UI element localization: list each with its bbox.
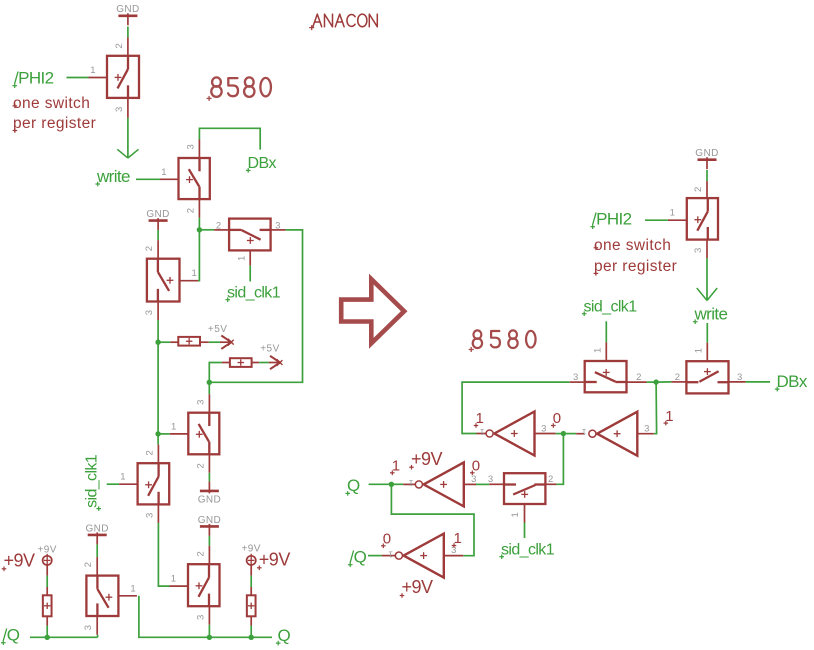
net label /PHI2 right: [590, 210, 631, 230]
wire /PHI2 to S1 pin 1: [67, 77, 89, 79]
resistor R2: [222, 358, 259, 367]
wire /Q rail left segment: [30, 635, 98, 638]
analog switch S12 (PHI2 right): [668, 181, 718, 258]
svg-text:0: 0: [472, 458, 480, 475]
svg-text:+9V: +9V: [4, 551, 36, 571]
svg-text:GND: GND: [198, 515, 221, 526]
pin number 3 of S2: [185, 144, 196, 149]
wire S9 pin 3 feedback loop to G1 output: [462, 382, 570, 433]
svg-text:3: 3: [83, 625, 94, 630]
net label DBx (left): [246, 155, 277, 173]
svg-text:1: 1: [581, 427, 586, 436]
ground GND4 above S8: [198, 515, 221, 536]
svg-text:2: 2: [185, 208, 196, 213]
supply label +9V gray left: [38, 545, 57, 556]
part label 8580 (left): [207, 77, 271, 101]
net label sid_clk1 (S3): [225, 285, 280, 303]
svg-text:1: 1: [388, 549, 393, 558]
tiny pin mark G1 input bubble: [479, 427, 484, 436]
svg-text:one switch: one switch: [13, 95, 90, 112]
svg-text:sid_clk1: sid_clk1: [84, 454, 101, 508]
state label 0 at G3 output: [470, 458, 480, 476]
svg-text:Q: Q: [347, 476, 360, 495]
wire +9V left to resistor R4: [46, 576, 48, 587]
svg-text:1: 1: [392, 458, 400, 475]
junction on /Q rail at R4: [45, 635, 50, 640]
svg-text:1: 1: [161, 167, 166, 178]
svg-text:1: 1: [665, 408, 673, 425]
ground GND6 top-right supply symbol: [695, 148, 718, 169]
wire GND5 to S7 pin 2: [96, 544, 98, 557]
wire G1 input to node F: [556, 433, 564, 435]
pin number 2 of S7: [83, 562, 94, 567]
svg-text:3: 3: [144, 310, 155, 315]
pin number 2 of S3: [216, 220, 221, 231]
svg-text:3: 3: [644, 423, 649, 434]
pin number 3 of S8: [195, 615, 206, 620]
svg-text:/Q: /Q: [350, 548, 367, 567]
pin number 2 of S5: [195, 463, 206, 468]
wire sid_clk1 to S6 pin 1: [107, 483, 119, 485]
svg-text:3: 3: [185, 144, 196, 149]
tiny pin mark G2 input bubble: [581, 427, 586, 436]
svg-text:DBx: DBx: [248, 155, 277, 172]
inverter G2: [576, 412, 654, 456]
svg-text:2: 2: [195, 463, 206, 468]
net label write (right): [693, 305, 728, 325]
wire GND2 to S4 pin 2: [157, 230, 159, 240]
svg-text:1: 1: [510, 512, 521, 517]
+9V supply symbol left: [43, 554, 52, 566]
pin number 2 of S10: [675, 372, 680, 383]
pin number 3 of S1: [114, 107, 125, 112]
svg-text:GND: GND: [146, 209, 169, 220]
pin number 1 of S12: [670, 208, 675, 219]
junction node F (latch node): [561, 431, 566, 436]
wire S3 pin 1 stub: [249, 265, 251, 281]
wire arrow from S12 pin 3 down to write node (right): [697, 258, 717, 300]
svg-text:GND: GND: [116, 4, 139, 15]
pin number 1 of S7: [130, 583, 135, 594]
analog switch S5: [170, 394, 220, 473]
junction node C: [207, 380, 212, 385]
svg-text:1: 1: [120, 472, 125, 483]
wire node A to S3 pin 2: [199, 229, 214, 231]
wire /Q to G4 input: [368, 555, 382, 557]
analog switch S4 (mirrored): [147, 240, 198, 320]
state label 1 at G1 output: [474, 410, 484, 428]
svg-text:0: 0: [383, 531, 391, 548]
pin number 1 of S10: [693, 348, 704, 353]
supply label +5V (2): [260, 344, 280, 355]
svg-text:2: 2: [83, 562, 94, 567]
svg-text:3: 3: [114, 107, 125, 112]
wire node D to S5 pin 1: [158, 433, 170, 435]
pin number 1 of S9: [592, 348, 603, 353]
wire R1 to +5V arrow: [209, 341, 220, 343]
wire S9 pin 2 to node E: [647, 381, 656, 383]
supply label +5V (1): [208, 324, 228, 335]
wire S8 pin 3 to rail: [208, 625, 210, 638]
svg-text:GND: GND: [695, 148, 718, 159]
junction node B (+5V tap): [155, 340, 160, 345]
inverter G3: [403, 462, 476, 506]
svg-text:sid_clk1: sid_clk1: [501, 542, 555, 559]
pin number 3 of S7: [83, 625, 94, 630]
svg-text:1: 1: [130, 583, 135, 594]
wire Q to node G: [369, 483, 392, 485]
net label sid_clk1 vertical (S6): [84, 454, 102, 511]
wire S7 pin 1 down to Q rail: [139, 596, 272, 638]
wire node B to resistor R1: [158, 341, 170, 343]
junction on Q rail at S8 pin 3: [207, 635, 212, 640]
state label 1 at G4 output: [452, 530, 462, 548]
svg-text:1: 1: [670, 208, 675, 219]
svg-text:1: 1: [192, 268, 197, 279]
svg-text:one switch: one switch: [594, 237, 671, 254]
tiny pin mark G4 input bubble: [388, 549, 393, 558]
wire S11 pin 1 stub: [524, 523, 526, 539]
pin number 2 of S8: [195, 551, 206, 556]
svg-text:2: 2: [693, 187, 704, 192]
pin number 2 of S12: [693, 187, 704, 192]
part label 8580 (right): [469, 330, 536, 352]
svg-text:per register: per register: [594, 258, 677, 275]
state label 0 at /Q node: [381, 531, 391, 549]
analog switch S2 (write switch): [160, 140, 210, 218]
sheet label ANACON: [309, 14, 377, 30]
svg-text:1: 1: [454, 530, 462, 547]
pin number 2 of S11: [548, 474, 553, 485]
value label +9V red at G3: [409, 449, 442, 470]
svg-text:3: 3: [693, 248, 704, 253]
pin number 1 of S3: [236, 256, 247, 261]
svg-text:3: 3: [737, 372, 742, 383]
pin number 3 of S3: [275, 220, 280, 231]
net label sid_clk1 bottom (S11): [499, 542, 554, 560]
svg-text:/PHI2: /PHI2: [14, 69, 54, 88]
net label /Q right: [348, 548, 367, 568]
resistor R1: [170, 337, 209, 346]
junction node D: [155, 431, 160, 436]
svg-text:+9V: +9V: [38, 545, 57, 556]
svg-text:per register: per register: [13, 115, 96, 132]
wire feedback Q node to G4 output: [391, 484, 474, 555]
analog switch S3 (sid_clk1 pass switch): [214, 219, 286, 266]
wire S2 pin 3 to DBx: [199, 128, 260, 149]
net label write (left): [95, 167, 130, 187]
resistor R3: [247, 565, 256, 626]
pin number 1 of S11: [510, 512, 521, 517]
wire G3 output to S11 pin 3: [476, 483, 489, 485]
ground GND1 top-left supply symbol: [116, 4, 139, 25]
pin number 2 of S1: [114, 43, 125, 48]
net label DBx right: [775, 372, 808, 392]
analog switch S8: [170, 546, 220, 625]
wire node E down to inverter G2 input: [654, 382, 657, 434]
svg-text:GND: GND: [198, 494, 221, 505]
wire S2 pin 2 to node A: [198, 218, 200, 230]
svg-text:/Q: /Q: [3, 626, 20, 645]
pin number 3 of G1: [541, 423, 546, 434]
wire node E to S10 pin 2: [656, 381, 671, 383]
net label /PHI2 left: [12, 69, 53, 89]
supply label +9V gray right: [242, 544, 261, 555]
wire GND4 to S8 pin 2: [208, 536, 210, 546]
wire +9V right to R3: [250, 576, 252, 587]
wire node G to G3 input: [391, 483, 403, 485]
svg-text:1: 1: [236, 256, 247, 261]
svg-text:GND: GND: [85, 523, 108, 534]
svg-text:3: 3: [275, 220, 280, 231]
wire S4 pin 3 down bus to S6 pin 2: [157, 320, 159, 445]
wire GND6 to S12 pin 2: [706, 170, 708, 181]
pin number 3 of G3 output: [471, 474, 476, 485]
svg-text:2: 2: [195, 551, 206, 556]
pin number 1 of S5: [171, 421, 176, 432]
pin number 3 of S12: [693, 248, 704, 253]
svg-text:+9V: +9V: [402, 577, 434, 597]
pin number 2 of S4: [144, 246, 155, 251]
svg-text:2: 2: [144, 450, 155, 455]
ground GND5 above S7: [85, 523, 108, 544]
wire R2 to +5V arrow: [259, 362, 269, 364]
pin number 1 of S2: [161, 167, 166, 178]
svg-text:3: 3: [195, 400, 206, 405]
svg-text:2: 2: [216, 220, 221, 231]
wire /PHI2 right to S12 pin 1: [645, 219, 668, 221]
pin number 2 of S6: [144, 450, 155, 455]
wire node A down to S4 pin 1: [198, 230, 199, 281]
wire GND1 to S1 pin 2: [127, 27, 129, 38]
svg-text:3: 3: [195, 615, 206, 620]
wire S3 pin 3 right and down to +5V node: [209, 230, 302, 382]
block arrow (transition symbol): [341, 279, 404, 343]
pin number 3 of S4: [144, 310, 155, 315]
svg-text:1: 1: [479, 427, 484, 436]
pin number 3 of S9: [573, 372, 578, 383]
state label 0 at node F: [551, 410, 561, 428]
svg-text:1: 1: [693, 348, 704, 353]
pin number 3 of S11 left: [488, 474, 493, 485]
svg-text:sid_clk1: sid_clk1: [227, 285, 281, 302]
svg-text:DBx: DBx: [777, 372, 808, 391]
pin number 3 of G4 output: [451, 545, 456, 556]
svg-text:0: 0: [553, 410, 561, 427]
svg-text:Q: Q: [278, 626, 291, 645]
svg-text:+5V: +5V: [260, 344, 280, 355]
pin number 1 of S8: [171, 574, 176, 585]
note text one switch per register (left): [13, 95, 97, 133]
svg-text:+9V: +9V: [411, 449, 443, 469]
svg-text:1: 1: [592, 348, 603, 353]
svg-text:1: 1: [408, 478, 413, 487]
analog switch S1 (PHI2 register switch): [89, 37, 140, 118]
inverter G4: [382, 534, 464, 578]
svg-text:2: 2: [548, 474, 553, 485]
pin number 3 of S6: [144, 513, 155, 518]
wire sid_clk1 to S9 pin 1: [605, 321, 607, 342]
junction node G: [389, 482, 394, 487]
svg-text:1: 1: [171, 421, 176, 432]
value label +9V red at G4: [400, 577, 433, 598]
note text one switch per register (right): [594, 237, 678, 276]
state label 1 at G2 input: [664, 408, 674, 426]
svg-text:2: 2: [144, 246, 155, 251]
wire arrow from S1 pin 3 down to write node: [117, 118, 138, 158]
net label Q right: [345, 476, 360, 496]
wire write to S2 pin 1: [136, 178, 160, 180]
svg-text:/PHI2: /PHI2: [592, 210, 632, 229]
pin number 1 of S1: [90, 65, 95, 76]
wire S10 pin 3 to DBx right: [746, 381, 770, 383]
analog switch S9 (sid_clk1 switch right): [570, 342, 647, 392]
ground GND2 above S4: [146, 209, 169, 230]
svg-text:+5V: +5V: [208, 324, 228, 335]
pin number 1 of S4: [192, 268, 197, 279]
analog switch S6: [119, 445, 169, 523]
net label Q bottom-right: [276, 626, 291, 646]
+9V supply symbol right: [247, 554, 256, 566]
pin number 2 of S2: [185, 208, 196, 213]
svg-text:sid_clk1: sid_clk1: [584, 299, 638, 316]
tiny pin mark G3 input bubble: [408, 478, 413, 487]
pin number 3 of S10: [737, 372, 742, 383]
wire node F to G2 output: [563, 433, 576, 435]
pin number 1 of S6: [120, 472, 125, 483]
svg-text:2: 2: [675, 372, 680, 383]
svg-text:1: 1: [171, 574, 176, 585]
svg-text:3: 3: [144, 513, 155, 518]
resistor R4: [43, 565, 52, 626]
ground GND3 below S5 (inverted): [198, 481, 221, 505]
net label /Q bottom-left: [1, 626, 20, 646]
analog switch S7 (mirrored): [86, 557, 136, 635]
svg-text:+9V: +9V: [259, 550, 291, 570]
wire S5 pin 2 to GND3: [208, 473, 210, 482]
svg-text:2: 2: [114, 43, 125, 48]
svg-text:1: 1: [90, 65, 95, 76]
pin number 2 of S9: [636, 372, 641, 383]
inverter G1: [477, 412, 556, 456]
svg-text:write: write: [96, 167, 130, 186]
junction on Q rail at R3: [249, 635, 254, 640]
junction node A: [197, 227, 202, 232]
value label +9V red right: [257, 550, 290, 571]
wire S6 pin 3 down and right to S8 pin 1: [158, 523, 169, 586]
state label 1 at Q node: [390, 458, 400, 476]
analog switch S10 (write switch right): [671, 343, 745, 394]
junction node E between switches: [653, 379, 658, 384]
+5V supply arrow 2: [269, 356, 283, 369]
svg-text:write: write: [694, 305, 728, 324]
svg-text:3: 3: [541, 423, 546, 434]
wire node C down to S5 pin 3: [208, 382, 210, 394]
wire node C up to resistor R2: [209, 363, 222, 383]
pin number 3 of G2: [644, 423, 649, 434]
value label +9V red left: [2, 551, 35, 572]
svg-text:2: 2: [636, 372, 641, 383]
analog switch S11 (sid_clk1 switch bottom): [489, 473, 556, 522]
wire node F down to S11 pin 2: [556, 434, 563, 485]
wire R4 to /Q rail: [46, 626, 48, 638]
svg-text:3: 3: [573, 372, 578, 383]
svg-text:1: 1: [476, 410, 484, 427]
wire write to S10 pin 1: [706, 323, 708, 343]
+5V supply arrow 1: [220, 336, 234, 349]
wire R3 to Q rail: [250, 626, 252, 638]
net label sid_clk1 top (S9): [582, 299, 637, 317]
pin number 3 of S5: [195, 400, 206, 405]
svg-text:3: 3: [471, 474, 476, 485]
